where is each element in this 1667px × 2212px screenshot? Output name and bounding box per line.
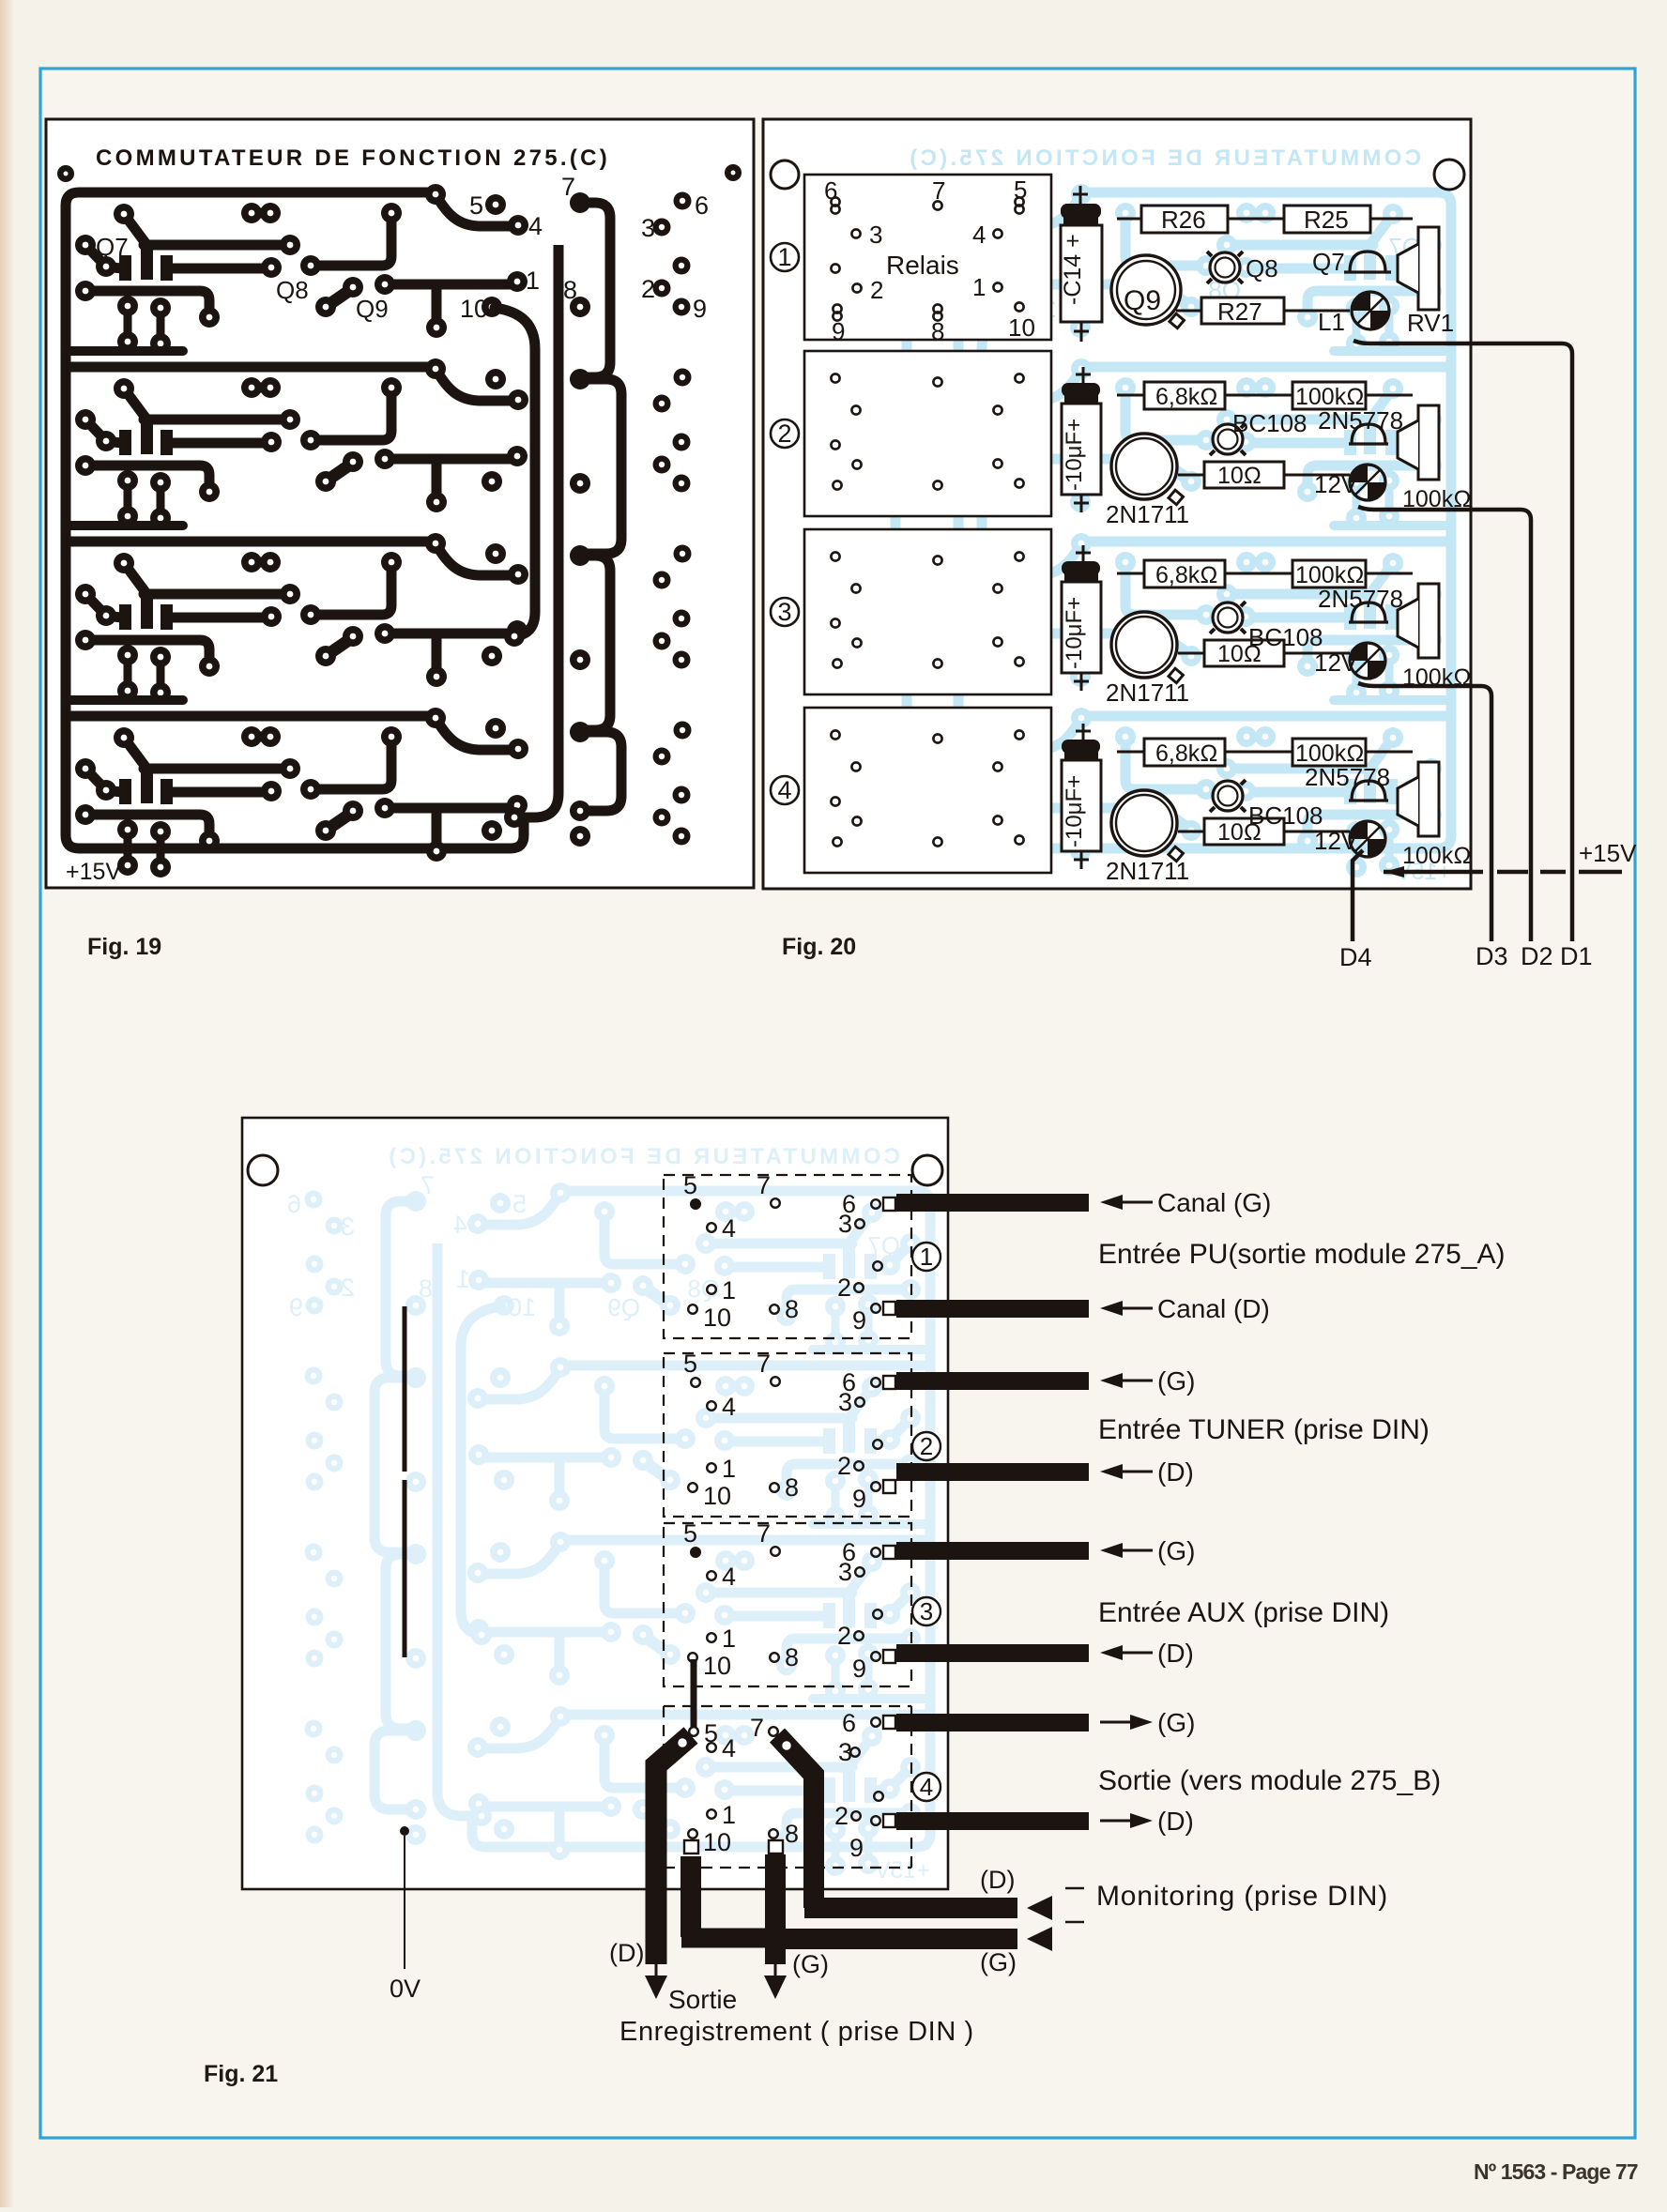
wire: Monitoring (D) horizontal run: [804, 1898, 1017, 1918]
svg-text:1: 1: [777, 243, 791, 271]
arrow out of board + label (D): [1100, 1807, 1194, 1836]
solder lug pin 8: [769, 1840, 783, 1854]
svg-text:+15V: +15V: [1579, 839, 1637, 867]
svg-text:R25: R25: [1304, 206, 1349, 234]
svg-text:Canal (G): Canal (G): [1157, 1188, 1271, 1217]
svg-text:BC108: BC108: [1248, 623, 1323, 651]
node: 0V junction dot: [400, 1826, 409, 1836]
relay block 1 (dashed outline with pins): [664, 1171, 911, 1338]
svg-text:R27: R27: [1217, 297, 1262, 326]
node: channel number 3 (circled): [771, 598, 799, 626]
svg-text:RV1: RV1: [1407, 309, 1454, 337]
node: relay number 2 (circled): [912, 1432, 941, 1460]
wire through R26/R25: [1117, 218, 1413, 221]
relay K3: [804, 529, 1051, 694]
node: channel number 2 (circled): [771, 420, 799, 448]
channel row 4 components: [1062, 724, 1471, 885]
svg-text:D3: D3: [1476, 942, 1508, 970]
svg-text:Relais: Relais: [886, 251, 959, 280]
svg-text:6: 6: [842, 1709, 856, 1737]
svg-text:(D): (D): [1157, 1807, 1194, 1836]
svg-text:5: 5: [1014, 175, 1027, 204]
left page-edge tan band: [0, 0, 1, 1]
svg-text:BC108: BC108: [1248, 801, 1323, 830]
svg-text:Fig. 20: Fig. 20: [782, 934, 856, 960]
svg-text:1: 1: [722, 1801, 736, 1829]
Fig 20 board outline: [763, 119, 1471, 889]
wire eyelet at pin 5: [677, 1737, 688, 1748]
wire eyelet at pin 7: [781, 1740, 792, 1751]
mounting hole left: [248, 1155, 278, 1185]
arrowhead: Monitoring (G): [1027, 1927, 1052, 1951]
svg-text:D2: D2: [1521, 942, 1553, 970]
arrow into board + label Canal (D): [1100, 1294, 1270, 1323]
svg-text:5: 5: [704, 1719, 718, 1747]
resistor R25: [1284, 206, 1370, 233]
Fig 21 board outline: [242, 1118, 948, 1889]
svg-text:(D): (D): [980, 1866, 1015, 1894]
wire: Monitoring (G) horizontal run: [785, 1929, 1017, 1949]
svg-text:BC108: BC108: [1232, 409, 1308, 437]
node: relay number 4 (circled): [912, 1773, 941, 1801]
svg-text:Q9: Q9: [1124, 285, 1161, 316]
arrow into board + label (D): [1100, 1639, 1194, 1668]
svg-text:Monitoring (prise DIN): Monitoring (prise DIN): [1096, 1881, 1388, 1912]
wire through R27: [1176, 310, 1350, 313]
svg-text:4: 4: [722, 1734, 736, 1762]
wire +15V solid segment: [1384, 870, 1483, 875]
channel row 3 components: [1062, 545, 1471, 707]
arrowhead +15V: [1384, 866, 1404, 877]
wire: shielded lead (G): [896, 1372, 1089, 1390]
svg-text:Entrée TUNER (prise DIN): Entrée TUNER (prise DIN): [1098, 1414, 1430, 1445]
wire: shielded lead (D): [896, 1463, 1089, 1481]
svg-text:Q7: Q7: [1312, 248, 1345, 276]
tick marks at Monitoring label: [1065, 1888, 1084, 1922]
svg-text:8: 8: [785, 1820, 799, 1848]
svg-text:3: 3: [920, 1597, 933, 1625]
svg-text:2N5778: 2N5778: [1305, 763, 1390, 791]
wire: Monitoring (D) from pin 7 (diagonal+vertical): [777, 1735, 814, 1908]
svg-text:(G): (G): [1157, 1708, 1195, 1737]
transistor Q9 (TO-39 can): [1111, 255, 1184, 328]
svg-text:3: 3: [838, 1738, 852, 1766]
svg-text:3: 3: [777, 598, 791, 626]
svg-text:Q8: Q8: [1246, 254, 1278, 282]
svg-text:(D): (D): [1157, 1639, 1194, 1668]
svg-text:Fig. 21: Fig. 21: [204, 2061, 278, 2087]
svg-text:9: 9: [832, 317, 845, 345]
lamp L1: [1352, 292, 1389, 329]
relay K4: [804, 708, 1051, 873]
svg-text:2: 2: [870, 276, 883, 304]
leader line to 0V label: [404, 1836, 405, 1969]
wire +15V dashed segments: [1497, 870, 1622, 875]
potentiometer RV1: [1398, 227, 1439, 310]
relay block 4 pins: [688, 1717, 883, 1838]
svg-text:9: 9: [849, 1834, 864, 1862]
svg-text:Nº 1563 - Page 77: Nº 1563 - Page 77: [1474, 2159, 1638, 2184]
svg-text:Enregistrement ( prise DIN ): Enregistrement ( prise DIN ): [619, 2017, 974, 2047]
resistor R27: [1201, 297, 1284, 324]
svg-text:7: 7: [932, 176, 945, 205]
svg-text:2: 2: [920, 1432, 933, 1460]
svg-text:(G): (G): [1157, 1366, 1195, 1396]
svg-text:6: 6: [824, 176, 837, 205]
node: channel number 1 (circled): [771, 243, 799, 271]
wire: shielded lead (D): [896, 1644, 1089, 1662]
pad: filled pin 5 block1: [691, 1199, 700, 1209]
svg-text:1: 1: [972, 273, 986, 301]
solder lug pin 10: [684, 1840, 698, 1854]
solder lug pin 6: [883, 1716, 895, 1729]
arrow into board + label (G): [1100, 1366, 1195, 1396]
transistor Q7 (dome): [1344, 252, 1391, 272]
svg-text:4: 4: [777, 776, 791, 804]
capacitor C14 electrolytic: [1061, 186, 1102, 342]
wire: Sortie Enregistrement (G) from pin 8: [765, 1854, 786, 1964]
svg-text:1: 1: [920, 1243, 933, 1271]
wire D4 from 12V lamp row4: [1353, 850, 1363, 941]
svg-text:Fig. 19: Fig. 19: [87, 934, 161, 960]
ghost copper traces seen through board (mirrored, cyan): [775, 145, 1460, 885]
svg-text:0V: 0V: [390, 1975, 421, 2003]
svg-text:10: 10: [1008, 313, 1035, 342]
svg-text:2N5778: 2N5778: [1318, 406, 1403, 435]
svg-text:2N5778: 2N5778: [1318, 585, 1403, 613]
relay K1 stacked pin pair holes: [831, 205, 1023, 320]
node: relay number 1 (circled): [912, 1243, 941, 1271]
node: channel number 4 (circled): [771, 776, 799, 804]
svg-text:Entrée AUX (prise DIN): Entrée AUX (prise DIN): [1098, 1597, 1389, 1628]
channel row 2 components: [1062, 367, 1471, 528]
svg-text:D4: D4: [1339, 943, 1372, 971]
wire: Sortie Enregistrement (D) from pin 5: [656, 1735, 691, 1964]
relay K1: [804, 175, 1051, 340]
arrow into board + label (D): [1100, 1457, 1194, 1487]
arrow into board + label Canal (G): [1100, 1188, 1271, 1217]
node: relay number 3 (circled): [912, 1597, 941, 1625]
arrowheads: Sortie Enregistrement down arrows: [656, 1964, 775, 1976]
mounting hole right: [1434, 160, 1464, 190]
svg-text:L1: L1: [1318, 308, 1345, 336]
relay block 2 (dashed outline with pins): [664, 1350, 911, 1517]
wire: 0V bus bar: [403, 1306, 407, 1657]
wire: strap pin10 block3 to pin5 block4: [691, 1659, 697, 1727]
wire: shielded lead (D): [896, 1812, 1089, 1830]
relay block 4 outline (dashed): [664, 1706, 911, 1868]
wire: strap pin10 down/right: [681, 1856, 701, 1937]
svg-text:8: 8: [931, 317, 944, 345]
relay K2: [804, 351, 1051, 516]
mounting hole left: [771, 160, 799, 189]
arrowhead: Monitoring (D): [1027, 1896, 1052, 1920]
mounting hole right: [912, 1155, 942, 1185]
svg-text:2: 2: [777, 420, 791, 448]
wire: shielded lead Canal (G): [896, 1194, 1089, 1212]
wire D1 from L1: [1353, 341, 1572, 941]
svg-text:Sortie (vers module 275_B): Sortie (vers module 275_B): [1098, 1765, 1441, 1796]
wire: shielded lead (G): [896, 1542, 1089, 1560]
relay block 3 (dashed outline with pins): [664, 1519, 911, 1686]
svg-text:-C14 +: -C14 +: [1060, 234, 1086, 305]
svg-text:Entrée PU(sortie module 275_A): Entrée PU(sortie module 275_A): [1098, 1239, 1506, 1270]
svg-text:4: 4: [972, 221, 986, 249]
svg-text:Canal (D): Canal (D): [1157, 1294, 1270, 1323]
svg-text:2: 2: [834, 1802, 849, 1830]
svg-text:3: 3: [869, 221, 882, 249]
svg-text:(G): (G): [792, 1950, 829, 1978]
arrow into board + label (G): [1100, 1536, 1195, 1565]
resistor R26: [1141, 206, 1228, 233]
svg-text:(G): (G): [980, 1948, 1017, 1976]
Fig 19 board outline: [46, 119, 754, 888]
copper trace artwork (solder side): [57, 145, 742, 885]
svg-text:(D): (D): [609, 1939, 644, 1967]
wire: shielded lead (G): [896, 1714, 1089, 1731]
svg-text:Sortie: Sortie: [668, 1985, 737, 2014]
pad: filled pin 5 block3: [691, 1548, 700, 1557]
wire: shielded lead Canal (D): [896, 1300, 1089, 1318]
svg-text:D1: D1: [1560, 942, 1593, 970]
transistor Q8 (TO-18 can): [1207, 252, 1243, 283]
arrow out of board + label (G): [1100, 1708, 1195, 1737]
svg-text:(D): (D): [1157, 1457, 1194, 1487]
wire D3 from 12V lamp row3: [1358, 683, 1491, 941]
svg-text:10: 10: [703, 1828, 731, 1856]
svg-text:R26: R26: [1161, 206, 1206, 234]
wire D2 from 12V lamp row2: [1358, 507, 1531, 941]
svg-text:(G): (G): [1157, 1536, 1195, 1565]
svg-text:4: 4: [920, 1773, 933, 1801]
solder lug pin 9: [883, 1814, 895, 1827]
svg-text:7: 7: [750, 1714, 764, 1742]
